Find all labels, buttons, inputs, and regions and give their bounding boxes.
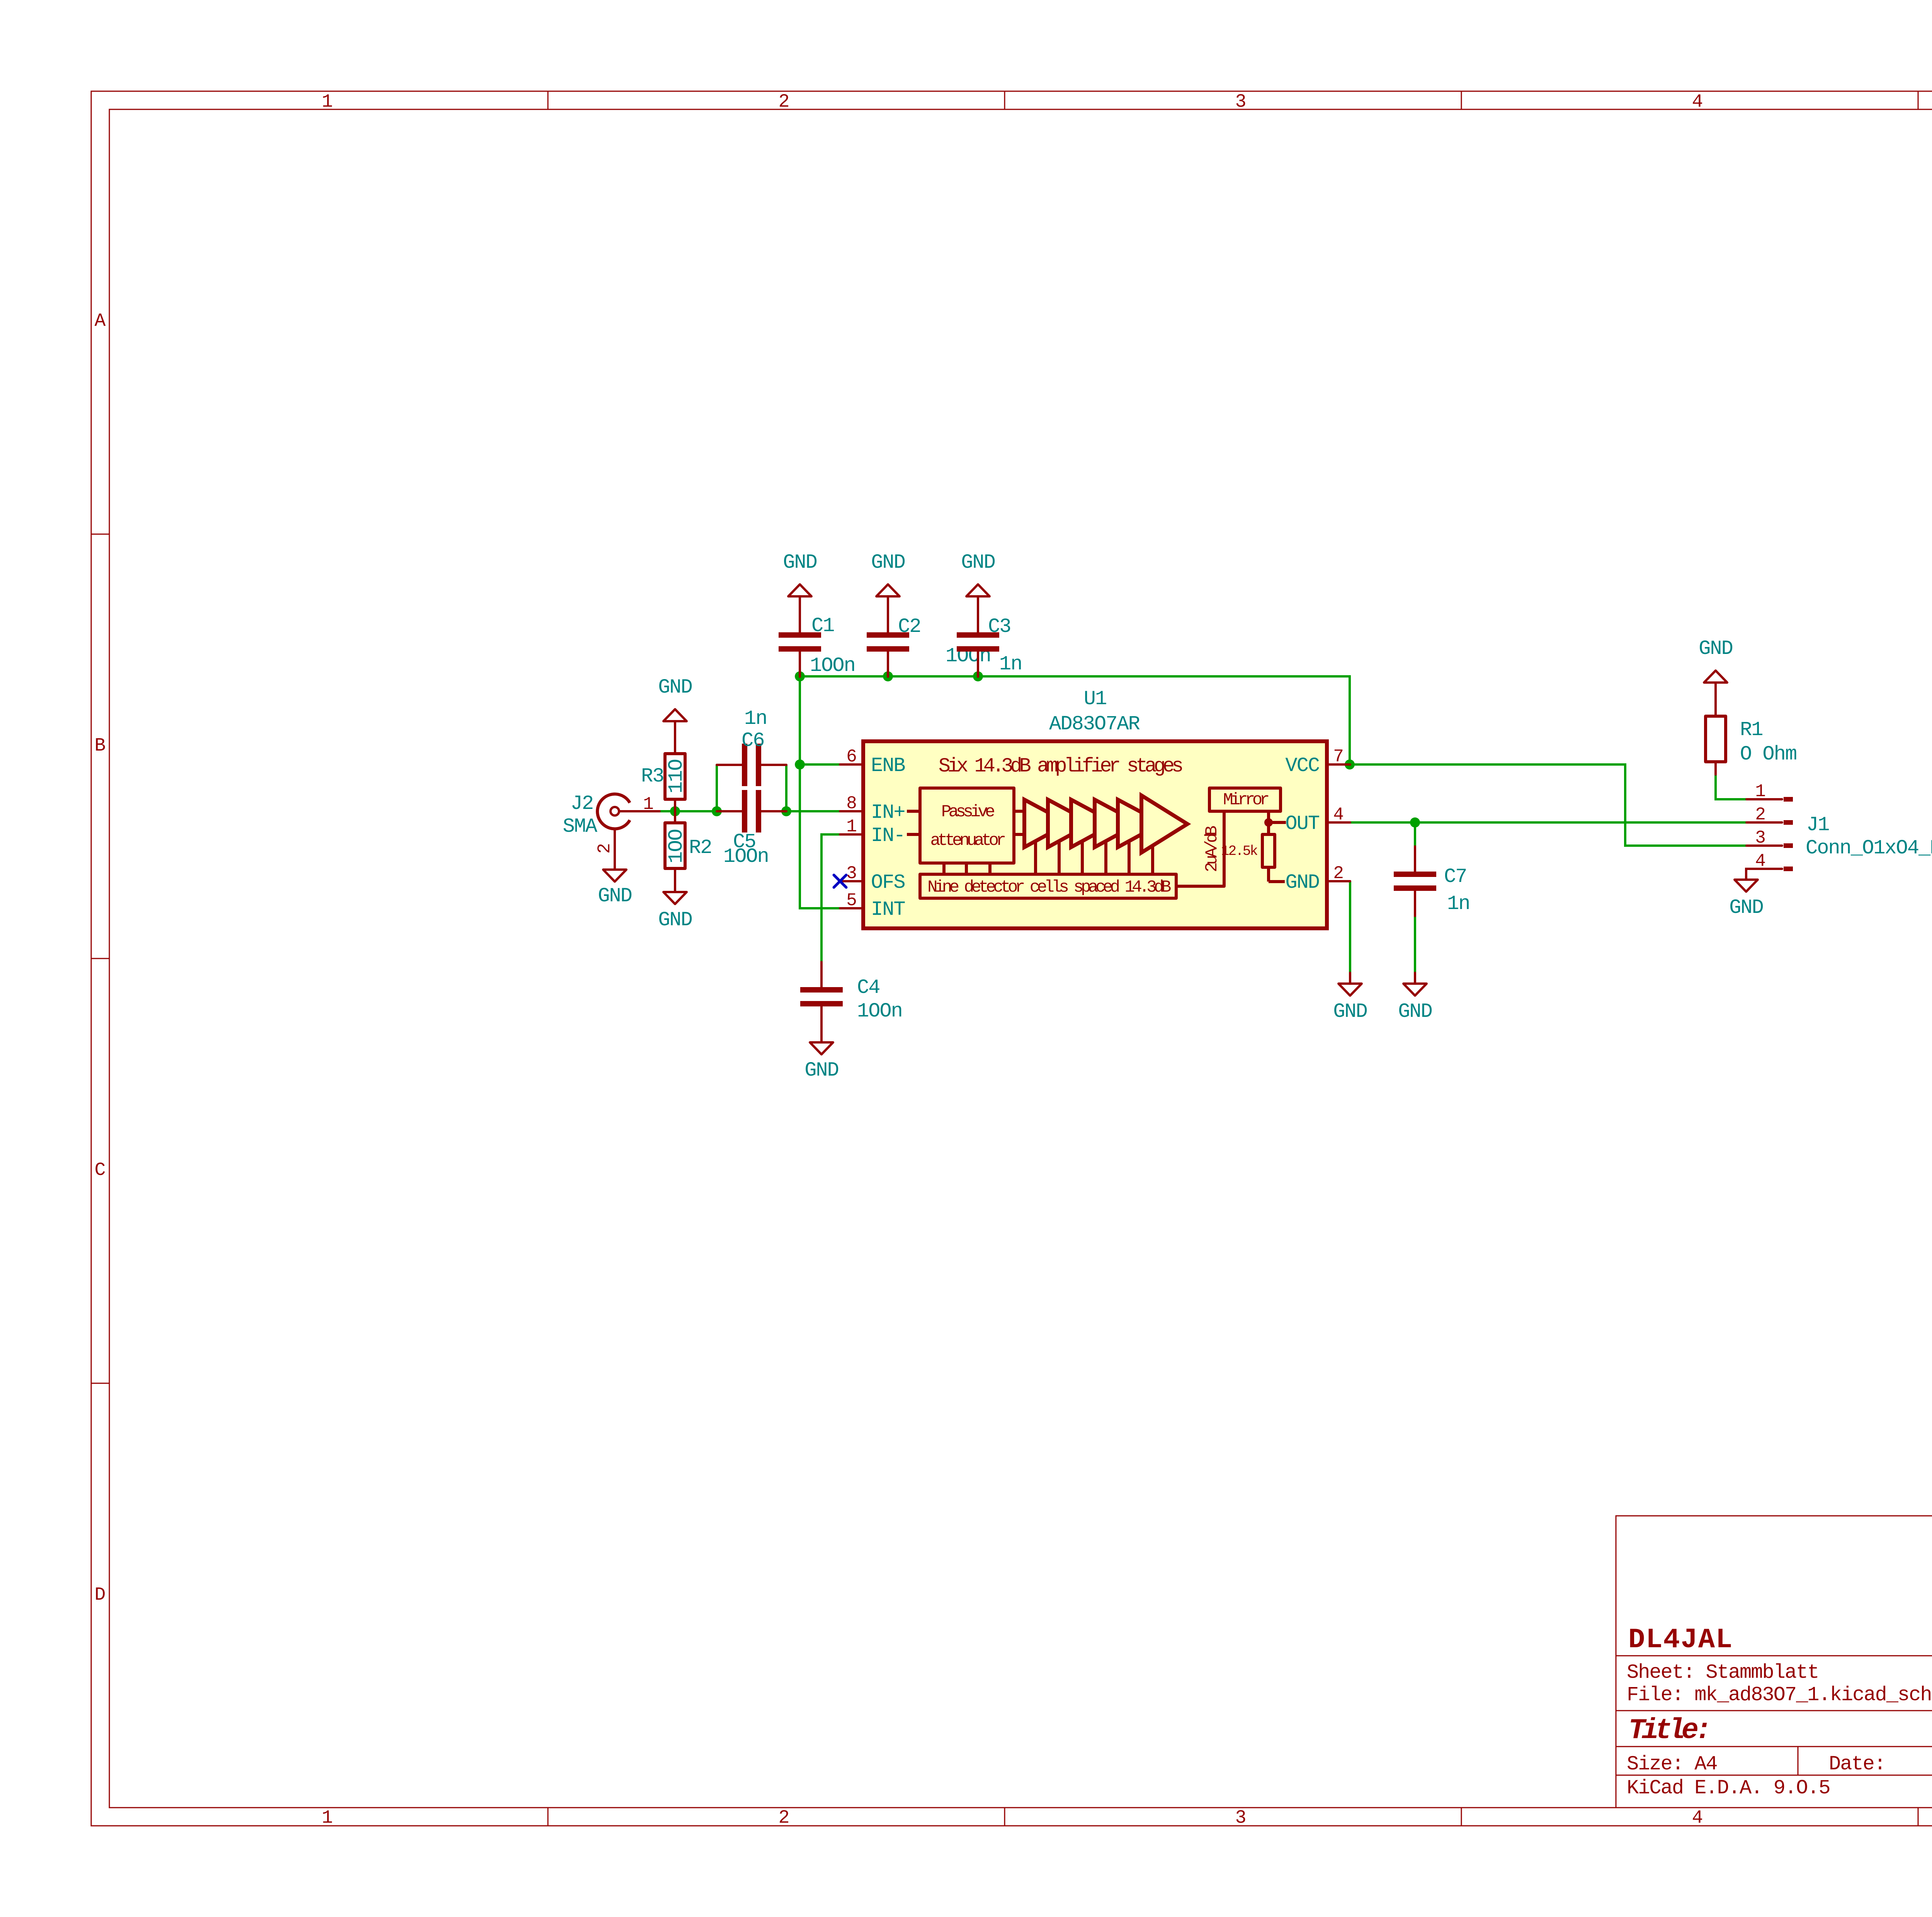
junction C6 right riser [781,806,791,816]
svg-text:GND: GND [1729,896,1763,919]
J1 pin 1 [1747,798,1782,800]
svg-text:R1: R1 [1740,718,1762,741]
wire C6 right riser [785,765,787,811]
U1 input dashes [907,810,920,813]
svg-text:C3: C3 [988,615,1010,638]
J1 pin4 to ground [1746,869,1747,880]
svg-text:C1: C1 [811,615,834,637]
connector J2 SMA coax [597,794,660,870]
ground above R1 [1699,637,1733,693]
frame column tick bottom 3 [1461,1808,1462,1826]
frame row tick left 1 [91,534,109,535]
ground below C7 [1398,973,1432,1023]
wire ENB stub [800,763,840,766]
junction OUT to C7 [1410,817,1420,827]
svg-text:SMA: SMA [563,815,597,838]
wire R1 bottom to J1 pin1 [1716,775,1747,799]
svg-text:1OOn: 1OOn [857,1000,902,1023]
capacitor C6 [717,744,786,786]
svg-text:R2: R2 [689,836,711,859]
wire VCC pin7 to J1 pin3 [1350,764,1747,846]
svg-text:3: 3 [1755,828,1766,848]
capacitor C7 [1394,846,1436,916]
resistor R1 body [1706,716,1726,762]
svg-text:2: 2 [1333,863,1344,884]
junction R3/R2 on IN+ net [670,806,680,816]
U1 attenuator to amp links [1014,810,1024,813]
U1 mirror to OUT [1267,811,1270,822]
svg-text:3: 3 [1235,92,1247,112]
svg-text:OFS: OFS [871,871,905,894]
svg-text:Six 14.3dB amplifier stages: Six 14.3dB amplifier stages [939,755,1182,778]
svg-text:GND: GND [1699,637,1733,660]
J2 ground triangle [603,870,626,882]
svg-text:A: A [95,311,106,332]
pin 4 OUT right [1327,821,1350,824]
U1 nine detector cells box [920,874,1176,898]
svg-text:1: 1 [322,1808,333,1828]
frame column tick top 1 [548,91,549,109]
R1 bottom lead [1714,762,1717,775]
svg-text:1: 1 [643,794,654,814]
svg-text:1n: 1n [744,707,767,730]
svg-text:attenuator: attenuator [930,831,1005,850]
svg-text:1: 1 [846,817,857,837]
J1 pin 3 [1747,844,1782,847]
svg-text:File: mk_ad83O7_1.kicad_sch: File: mk_ad83O7_1.kicad_sch [1627,1684,1932,1706]
title block [1616,1516,1932,1808]
svg-text:1: 1 [1755,781,1766,802]
svg-text:Size: A4: Size: A4 [1627,1753,1717,1776]
resistor R2 body [665,823,685,868]
svg-text:1n: 1n [1447,892,1469,915]
svg-text:3: 3 [1235,1808,1247,1828]
ground above R3 [658,676,692,732]
svg-text:GND: GND [783,551,817,574]
svg-text:GND: GND [1398,1000,1432,1023]
svg-text:GND: GND [1285,871,1319,894]
svg-text:R3: R3 [641,765,663,788]
frame column tick top 4 [1918,91,1919,109]
pin 3 OFS left [840,880,863,882]
junction C3 at top bus [973,671,983,681]
svg-text:D: D [95,1585,106,1605]
pin 1 IN- left [840,833,863,836]
pin 5 INT left [840,907,863,909]
junction VCC pin7 [1345,759,1355,770]
wire OUT drop to C7 [1414,822,1416,846]
svg-text:GND: GND [804,1059,838,1082]
ground above C1 [783,551,817,607]
svg-text:1OOn: 1OOn [723,845,769,868]
wire vertical ENB/INT at x2070 [800,676,840,908]
title block line under size/date [1616,1775,1932,1776]
svg-text:GND: GND [961,551,995,574]
U1 passive attenuator box [920,788,1014,863]
pin 6 ENB left [840,763,863,766]
wire OUT pin4 to J1 pin2 [1350,821,1747,824]
ground below C4 [804,1032,838,1082]
svg-text:GND: GND [658,676,692,699]
svg-text:KiCad E.D.A. 9.O.5: KiCad E.D.A. 9.O.5 [1627,1777,1830,1800]
junction C1 at top bus [795,671,805,681]
svg-text:Date:: Date: [1829,1753,1885,1776]
R2 top lead [674,811,676,823]
svg-text:2: 2 [779,92,790,112]
wire C6 left riser [716,765,718,811]
svg-text:12.5k: 12.5k [1221,843,1257,859]
frame column tick top 3 [1461,91,1462,109]
svg-text:INT: INT [871,898,905,921]
wire IN- to C4 [821,834,840,962]
J1 pin 4 [1747,868,1782,870]
U1 detector to mirror path [1176,812,1224,886]
svg-text:Mirror: Mirror [1223,790,1269,810]
capacitor C1 [779,607,821,677]
pin 8 IN+ left [840,810,863,812]
U1 amplifier triangle chain [1024,800,1068,847]
wire top VCC bus from C1 to VCC drop [800,676,1350,764]
svg-text:GND: GND [658,909,692,931]
capacitor C2 [867,607,909,677]
capacitor C5 [717,790,786,833]
no-connect X on pin 3 OFS [834,875,846,887]
svg-text:5: 5 [846,890,857,911]
frame row tick left 3 [91,1383,109,1384]
svg-text:AD83O7AR: AD83O7AR [1049,713,1139,735]
op-amp U1 AD8307AR body [863,741,1327,928]
R3 bottom lead [674,799,676,811]
frame row tick left 2 [91,958,109,959]
wire SMA to C5 node [660,810,717,812]
svg-text:2: 2 [595,843,615,854]
svg-text:4: 4 [1692,92,1703,112]
wire IC GND pin2 down [1349,881,1351,973]
title block line under company [1616,1655,1932,1657]
svg-text:C: C [95,1160,106,1181]
U1 attenuator taps [942,863,946,874]
svg-text:Title:: Title: [1628,1714,1708,1747]
svg-text:VCC: VCC [1285,754,1319,777]
frame column tick bottom 4 [1918,1808,1919,1826]
svg-text:7: 7 [1333,747,1344,767]
frame column tick top 2 [1004,91,1005,109]
svg-text:1OOn: 1OOn [810,654,855,677]
svg-text:2: 2 [1755,805,1766,825]
svg-text:6: 6 [846,747,857,767]
junction C2 at top bus [883,671,893,681]
ground below U1 pin2 [1333,973,1367,1023]
title block line under file [1616,1710,1932,1711]
svg-text:4: 4 [1333,805,1344,825]
svg-text:2: 2 [779,1808,790,1828]
svg-text:11O: 11O [665,759,688,793]
ground above C3 [961,551,995,607]
svg-text:1: 1 [322,92,333,112]
svg-text:GND: GND [598,885,632,907]
svg-text:DL4JAL: DL4JAL [1628,1624,1733,1656]
svg-text:1n: 1n [999,653,1022,676]
wire C5 right node to IN+ pin [786,810,840,812]
svg-text:B: B [95,735,106,756]
wire C7 bottom to GND [1414,916,1416,973]
svg-text:IN+: IN+ [871,801,905,824]
svg-text:8: 8 [846,793,857,814]
svg-text:GND: GND [1333,1000,1367,1023]
svg-text:J2: J2 [571,792,593,815]
svg-text:U1: U1 [1084,688,1106,710]
R3 top lead [674,732,676,754]
title block line under title [1616,1746,1932,1747]
svg-text:C6: C6 [742,729,764,752]
capacitor C4 [800,962,843,1032]
capacitor C3 [957,607,999,677]
U1 internal OUT junction [1264,818,1273,827]
svg-text:4: 4 [1692,1808,1703,1828]
U1 internal 12.5k resistor [1267,822,1270,834]
R1 top lead [1714,693,1717,716]
svg-text:O Ohm: O Ohm [1740,743,1796,766]
pin 2 GND right [1327,880,1350,882]
frame column tick bottom 2 [1004,1808,1005,1826]
svg-text:IN-: IN- [871,824,905,847]
svg-text:4: 4 [1755,851,1766,871]
ground above C2 [871,551,905,607]
svg-text:Nine detector cells spaced 14.: Nine detector cells spaced 14.3dB [927,878,1171,897]
R2 bottom lead [674,868,676,892]
svg-text:J1: J1 [1806,814,1829,836]
U1 amplifier taps [1034,831,1037,874]
svg-text:ENB: ENB [871,754,905,777]
title block divider size/date [1798,1747,1799,1775]
svg-text:2uA/dB: 2uA/dB [1202,826,1222,872]
svg-text:C7: C7 [1444,865,1466,888]
J1 pin 2 [1747,821,1782,824]
svg-text:Passive: Passive [941,802,994,822]
svg-text:Sheet: Stammblatt: Sheet: Stammblatt [1627,1661,1819,1684]
svg-text:OUT: OUT [1285,812,1319,835]
svg-text:Conn_O1xO4_Pin: Conn_O1xO4_Pin [1806,837,1932,860]
junction C6 left riser [712,806,722,816]
svg-text:GND: GND [871,551,905,574]
junction ENB [795,759,805,770]
pin 7 VCC right [1327,763,1350,766]
U1 mirror box [1209,788,1281,811]
svg-text:1OO: 1OO [665,829,688,863]
svg-text:3: 3 [846,863,857,884]
svg-text:C4: C4 [857,976,879,999]
frame column tick bottom 1 [548,1808,549,1826]
svg-text:C2: C2 [898,615,920,638]
resistor R3 body [665,754,685,799]
